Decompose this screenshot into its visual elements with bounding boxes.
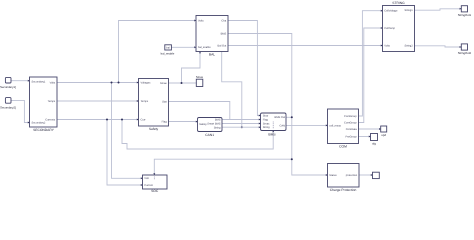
svg-text:Curr: Curr [141,118,146,121]
wire Safety Smax to Goto tag [169,82,197,84]
output tag protection [371,172,380,178]
input tag Secondary1 [0,77,16,89]
wire COM ComGroup1 up to STRING CellVoltage [359,11,383,116]
svg-text:StringOut2: StringOut2 [458,51,472,55]
subsystem CAN1 [196,118,222,137]
node junction SOC top feed [291,158,293,160]
wire BMS Out stub [286,116,292,118]
svg-text:CAN: CAN [280,124,286,127]
svg-text:BMS: BMS [215,119,221,122]
input tag Secondary2 [0,98,16,110]
svg-text:[Secondary1]: [Secondary1] [0,85,16,89]
wire STRING out1 to StringOut1 tag [415,9,462,10]
svg-text:Volts: Volts [198,19,204,22]
svg-text:Currents: Currents [45,118,56,121]
svg-text:CellTemp: CellTemp [384,27,395,30]
svg-text:BMS: BMS [221,32,227,35]
svg-text:BMS Out: BMS Out [274,116,285,119]
wire BAL bottom out2 to BMS in4 [222,52,242,128]
wire branch down to SOC Volt [112,83,143,179]
svg-text:StringOut1: StringOut1 [458,13,472,17]
svg-text:cell_meas: cell_meas [329,124,341,127]
svg-text:bal: bal [166,47,170,50]
svg-text:SOC: SOC [151,189,159,193]
svg-text:Secondary1: Secondary1 [32,80,46,83]
svg-text:Smart BMS: Smart BMS [207,123,221,126]
subsystem Charge Protection [326,164,359,193]
svg-text:BMS: BMS [268,132,276,136]
svg-text:Secondary2: Secondary2 [32,121,46,124]
wire CAN1 out2 to BMS in3 [222,123,261,125]
svg-text:Temps: Temps [48,100,56,103]
svg-text:Volt: Volt [144,177,149,180]
wire branch up to BAL Volts [119,21,197,83]
wire BAL out1 down to BMS in1 [228,21,261,116]
svg-text:PreGroup: PreGroup [345,135,357,138]
wire BAL out2 down long vertical [228,34,328,176]
svg-text:COM: COM [339,144,347,148]
svg-text:Smax: Smax [196,75,204,79]
wire STRING out2 to StringOut2 tag [415,46,462,47]
svg-text:ComData: ComData [346,128,358,131]
wire Safety Stat jog to BMS [169,102,230,120]
output tag StringOut1 [458,6,472,17]
svg-text:String1: String1 [404,9,413,12]
svg-text:Bal Out: Bal Out [218,44,227,47]
svg-text:Flag: Flag [263,119,269,122]
wire branch down to SOC Current [107,120,143,186]
node junction SOC volt [111,82,113,84]
subsystem SOC [141,173,167,193]
subsystem SECONDARY [28,77,57,132]
wire COM ComData to upd tag [359,128,381,130]
svg-text:Stop: Stop [263,115,269,118]
node junction Smax branch [181,82,183,84]
svg-text:ComGroup: ComGroup [344,121,357,124]
wire bal_enable tag to BAL [171,46,196,48]
wire Safety Flag to CAN1 [169,121,198,123]
svg-text:bal_enable: bal_enable [161,52,175,56]
wire tag2 to SECONDARY [11,100,30,122]
svg-text:STRING: STRING [392,1,405,5]
node junction on BMS in4 wire [241,126,243,128]
svg-text:protection: protection [346,174,358,177]
wire branch to SOC top [154,159,291,175]
svg-text:Cha: Cha [221,19,226,22]
from tag bal_enable [161,45,175,56]
svg-text:String2: String2 [404,45,413,48]
svg-text:String: String [214,126,221,129]
node junction BMS Out [291,116,293,118]
svg-text:Volts: Volts [50,81,56,84]
svg-text:Status: Status [329,174,337,177]
wire CAN1 out1 to BMS in2 [222,119,261,121]
wire COM PreGroup to cfg tag [359,136,371,138]
svg-text:upd: upd [381,133,386,137]
wire Charge Protection to out tag [359,174,372,176]
svg-text:Charge Protection: Charge Protection [330,188,357,192]
wire SECONDARY Volts to Safety Voltages [57,82,139,84]
wire SECONDARY Currents to Safety Curr [57,119,139,121]
subsystem COM [326,109,359,148]
svg-text:Flag: Flag [162,120,168,123]
subsystem BMS [259,113,286,136]
svg-text:ComGroup: ComGroup [344,115,357,118]
goto tag upd [379,126,387,137]
svg-text:bal_enable: bal_enable [198,46,211,49]
svg-text:Current: Current [144,184,153,187]
wire COM ComGroup2 up to STRING CellTemp [359,28,383,123]
wire BAL out3 to STRING Volts [228,45,383,47]
wire BMS CAN to COM cell_meas [286,124,328,126]
svg-text:Smax: Smax [160,82,167,85]
goto tag Smax [196,75,204,87]
subsystem STRING [381,1,415,52]
svg-text:Safety: Safety [149,127,159,131]
svg-text:SECONDARY: SECONDARY [33,128,55,132]
svg-text:Volts: Volts [384,44,390,47]
wire branch up to BAL bottom input [182,52,201,84]
svg-text:Smax: Smax [263,122,270,125]
svg-text:cfg: cfg [372,141,376,145]
svg-text:Temps: Temps [141,100,149,103]
svg-text:Voltages: Voltages [141,81,152,84]
node junction on Voltages wire [118,82,120,84]
wire tag1 to SECONDARY [11,80,30,82]
wire SECONDARY Temps to Safety Temps [57,100,139,102]
svg-text:BAL: BAL [209,52,215,56]
svg-text:Safety: Safety [199,123,207,126]
node junction BMS bottom feed [121,119,123,121]
subsystem Safety [137,79,169,132]
subsystem BAL [194,16,228,57]
svg-text:String: String [263,126,270,129]
wire CAN1 out3 to BMS in4 [222,126,261,128]
svg-text:[Secondary2]: [Secondary2] [0,105,16,109]
goto tag cfg [369,134,378,146]
svg-text:CellVoltage: CellVoltage [384,10,398,13]
output tag StringOut2 [458,44,472,55]
svg-text:CAN1: CAN1 [205,133,214,137]
node junction SOC current [106,119,108,121]
wire branch down to BMS bottom port [122,120,273,150]
svg-text:Stat: Stat [162,100,167,103]
